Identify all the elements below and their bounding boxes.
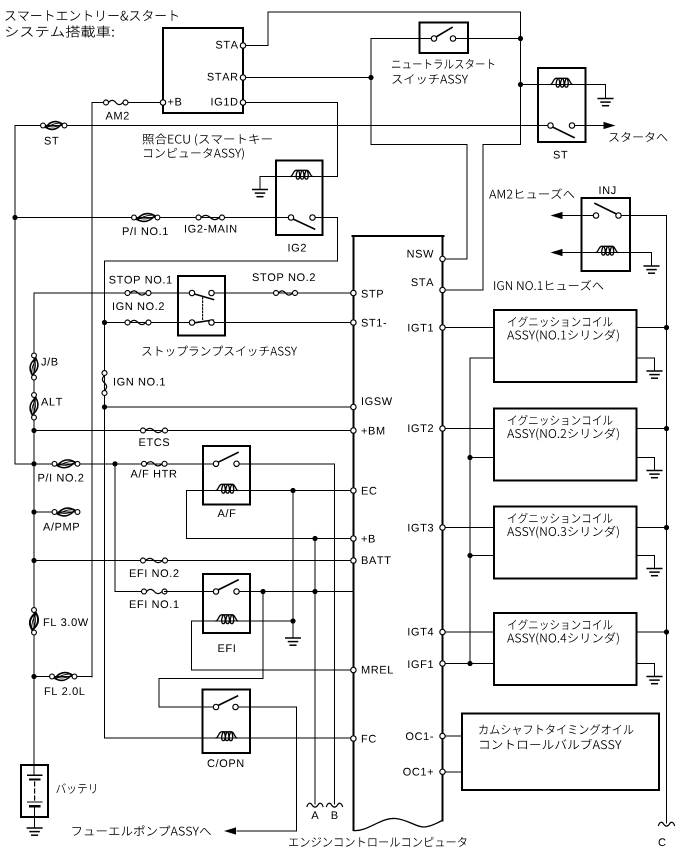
wire INJ coil left bbox=[562, 252, 596, 254]
relay ST blade bbox=[553, 127, 575, 138]
wire T2 to right bus bbox=[637, 428, 667, 430]
relay EFI box bbox=[203, 574, 250, 633]
fusible link ALT (vertical) bbox=[30, 393, 38, 420]
fuse IGN NO.2 bbox=[125, 320, 151, 325]
fuse A/F HTR bbox=[142, 461, 168, 466]
S2 blade bottom bbox=[195, 320, 214, 323]
wire OC1+ row bbox=[443, 771, 463, 773]
U2 terminal IGT1 bbox=[440, 325, 445, 330]
wire FL 2.0L row bbox=[34, 676, 92, 679]
junction IG bus / IGN NO.2 row bbox=[102, 320, 107, 325]
U2 terminal +BM bbox=[351, 428, 356, 433]
junction bus34 / FL 2.0L row bbox=[31, 674, 36, 679]
relay ST box bbox=[538, 68, 586, 142]
wire EFI output to C/OPN input bbox=[159, 592, 263, 708]
junction right bus / IGT1 bbox=[664, 325, 669, 330]
junction EFI output / C-OPN drop bbox=[260, 589, 265, 594]
wire IGT2 row bbox=[443, 428, 495, 430]
arrow to starter bbox=[604, 122, 616, 129]
battery plate + long bbox=[27, 774, 42, 776]
relay INJ coil bbox=[596, 246, 618, 255]
junction S1-right / STA riser bbox=[518, 36, 523, 41]
U2 pin label NSW bbox=[408, 250, 434, 258]
label IGN NO.2 bbox=[113, 302, 164, 310]
U2 terminal BATT bbox=[351, 558, 356, 563]
wire T1 lower-right to ground bbox=[637, 358, 655, 371]
U1 pin label +B bbox=[168, 98, 181, 106]
relay IG2 coil bbox=[291, 170, 313, 179]
wire EFI NO.1 fuse to relay bbox=[165, 591, 217, 593]
ignition coil assy T4 box bbox=[494, 613, 637, 685]
label ST (fuse) bbox=[45, 137, 59, 145]
label P/I NO.2 bbox=[38, 474, 83, 482]
U2 pin label FC bbox=[362, 735, 376, 743]
valve caption line 1 bbox=[479, 724, 633, 735]
label FL 3.0W bbox=[44, 618, 88, 626]
junction EC row / ground bus bbox=[290, 488, 295, 493]
U2 terminal IGT2 bbox=[440, 426, 445, 431]
arrow to fuel pump bbox=[224, 827, 236, 834]
wire battery feed bus x92 bbox=[91, 103, 93, 678]
relay C/OPN contact right bbox=[233, 704, 238, 709]
note: to AM2 fuse bbox=[489, 188, 574, 199]
ignition coil assy T2 box bbox=[494, 409, 637, 481]
wire IGT4 row bbox=[443, 631, 495, 633]
relay INJ contact right bbox=[616, 213, 621, 218]
wire EFI output row bbox=[237, 591, 354, 593]
U2 pin label +BM bbox=[362, 427, 385, 435]
S1 contact right bbox=[450, 36, 455, 41]
wire A/F coil right to EC bbox=[238, 490, 353, 492]
U2 terminal STP bbox=[351, 290, 356, 295]
U2 pin label IGF1 bbox=[408, 660, 433, 668]
wire bus to battery bbox=[33, 677, 35, 776]
U2 pin label MREL bbox=[362, 666, 393, 674]
S2 blade top bbox=[195, 294, 214, 300]
label STOP NO.1 bbox=[109, 276, 171, 284]
wire INJ switch right to right bus bbox=[619, 216, 667, 824]
U1 terminal IG1D bbox=[240, 100, 245, 105]
label ST (relay) bbox=[554, 151, 568, 159]
wire NSW-switch left riser bbox=[371, 39, 467, 259]
connector break B bbox=[327, 803, 343, 807]
S1 caption line 2 bbox=[392, 74, 468, 84]
U2 pin label IGT3 bbox=[408, 524, 433, 532]
label INJ bbox=[600, 186, 616, 194]
wire IGT1 row bbox=[443, 327, 495, 329]
T3 caption line 1 bbox=[508, 513, 612, 524]
wire ST relay coil feed bbox=[521, 84, 551, 86]
wire ST relay output bbox=[575, 125, 605, 127]
relay C/OPN blade bbox=[218, 696, 238, 706]
junction bus34 / A-PMP row bbox=[31, 509, 36, 514]
wire IGN NO.2 row right bbox=[212, 322, 354, 324]
wire STOP NO.1 row right bbox=[212, 292, 354, 294]
relay EFI contact left bbox=[213, 589, 218, 594]
wire IGF1 row bbox=[443, 663, 471, 665]
label EFI NO.2 bbox=[130, 569, 179, 577]
label IG2 bbox=[289, 244, 306, 252]
T4 caption line 2 bbox=[507, 632, 619, 644]
wire STOP NO.1 row bbox=[34, 292, 192, 294]
wire STAR net: U1 STAR to node bbox=[243, 77, 371, 79]
node label C bbox=[659, 838, 666, 846]
U2 pin label STP bbox=[362, 290, 384, 298]
relay IG2 contact right bbox=[310, 215, 315, 220]
S2 contact bottom-left bbox=[189, 320, 194, 325]
relay INJ blade bbox=[595, 204, 617, 215]
U2 terminal OC1+ bbox=[440, 769, 445, 774]
relay EFI coil bbox=[216, 615, 238, 624]
relay EFI blade bbox=[218, 580, 238, 590]
note: smart entry title line 2 bbox=[6, 25, 114, 37]
wire T1 lower-left bbox=[470, 357, 494, 359]
junction IGF bus / coil2 bbox=[467, 455, 472, 460]
ground (ignition coil T1) bbox=[647, 371, 662, 378]
relay C/OPN coil bbox=[216, 732, 237, 741]
relay IG2 blade bbox=[293, 219, 315, 229]
note: smart entry title line 1 bbox=[5, 10, 178, 21]
neutral start switch S1 box bbox=[420, 23, 469, 54]
wire +B feed from bus bbox=[92, 102, 106, 104]
wire INJ coil to ground bbox=[618, 253, 652, 267]
label A/F bbox=[218, 509, 236, 517]
label IG2-MAIN bbox=[185, 225, 236, 233]
fusible link FL 2.0L bbox=[50, 673, 77, 681]
U2 terminal IGF1 bbox=[440, 661, 445, 666]
U1 pin label IG1D bbox=[212, 98, 238, 106]
ground (INJ coil) bbox=[644, 266, 659, 273]
label ALT bbox=[41, 398, 62, 406]
stop lamp switch S2 box bbox=[178, 276, 225, 336]
wire P-I NO.2 / A-F HTR row bbox=[15, 463, 216, 465]
wire T2 lower-left bbox=[470, 457, 494, 459]
wire IG1D to IG2 coil bbox=[243, 103, 338, 177]
label IGN NO.1 bbox=[114, 378, 165, 386]
junction A-F HTR row / EFI NO.1 drop bbox=[112, 461, 117, 466]
S2 contact bottom-right bbox=[209, 320, 214, 325]
label FL 2.0L bbox=[45, 687, 85, 695]
wire OC1- row bbox=[443, 735, 463, 737]
note: to fuel pump assy bbox=[72, 825, 210, 836]
battery plate - short bbox=[30, 778, 39, 780]
relay A/F blade bbox=[218, 453, 238, 463]
fuse EFI NO.2 bbox=[141, 558, 168, 563]
wire T4 lower-right to ground bbox=[637, 664, 655, 677]
fuse AM2 bbox=[104, 100, 129, 105]
U2 terminal IGSW bbox=[351, 404, 356, 409]
ground (ignition coil T2) bbox=[647, 471, 662, 478]
wire A connector drop bbox=[314, 539, 316, 805]
junction bus34 / ETCS row bbox=[31, 428, 36, 433]
relay ST contact left bbox=[548, 123, 553, 128]
junction bus34 / P-I NO.2 row bbox=[31, 461, 36, 466]
label J/B bbox=[41, 358, 57, 366]
relay IG2 contact left bbox=[288, 215, 293, 220]
battery BT1 box bbox=[21, 765, 48, 817]
U2 pin label STA bbox=[411, 278, 433, 286]
wire T1 to right bus bbox=[637, 327, 667, 329]
U2 pin label +B bbox=[362, 535, 375, 543]
relay ST coil bbox=[551, 78, 573, 87]
label EFI bbox=[218, 644, 234, 652]
U1 terminal STA bbox=[240, 43, 245, 48]
U2 terminal NSW bbox=[440, 256, 445, 261]
T2 caption line 2 bbox=[507, 428, 619, 440]
fusible link P/I NO.1 bbox=[132, 214, 160, 222]
fusible link J/B (vertical) bbox=[30, 353, 38, 380]
wire battery negative to ground bbox=[34, 806, 36, 828]
U2 pin label IGT2 bbox=[408, 424, 433, 432]
junction IGF bus / IGF1 row bbox=[467, 661, 472, 666]
wire T3 lower-right to ground bbox=[637, 556, 655, 569]
wire EFI NO.1 feed drop bbox=[115, 464, 144, 592]
wire C/OPN output to fuel pump bbox=[236, 707, 297, 831]
junction STA riser / ST coil bbox=[518, 82, 523, 87]
U2 pin label IGT4 bbox=[408, 628, 433, 636]
label P/I NO.1 bbox=[123, 227, 168, 235]
U1 terminal STAR bbox=[240, 75, 245, 80]
ground (A/F & EFI relay coils) bbox=[286, 638, 300, 645]
junction EFI output / A drop bbox=[312, 589, 317, 594]
T1 caption line 1 bbox=[508, 316, 612, 327]
wire IG2 coil right bbox=[313, 176, 338, 178]
wire S1 right to STA riser bbox=[453, 38, 521, 40]
wire +B row to ECU bbox=[315, 538, 353, 540]
battery plate + long 2 bbox=[27, 801, 42, 803]
wire ST row to starter relay bbox=[15, 125, 551, 127]
S2 contact top-left bbox=[189, 290, 194, 295]
S2 caption bbox=[142, 346, 297, 357]
fuse STOP NO.1 bbox=[125, 291, 151, 296]
fusible link FL 3.0W (vertical) bbox=[30, 608, 38, 635]
relay INJ contact left bbox=[593, 213, 598, 218]
connector break A bbox=[307, 803, 323, 807]
junction right bus / IGT3 bbox=[664, 525, 669, 530]
T2 caption line 1 bbox=[508, 415, 612, 426]
junction ground bus / EFI coil bbox=[290, 618, 295, 623]
battery internal link (dashed) bbox=[34, 782, 36, 800]
U2 terminal ST1- bbox=[351, 320, 356, 325]
U2 terminal STA bbox=[440, 287, 445, 292]
relay A/F contact right bbox=[234, 461, 239, 466]
S1 caption line 1 bbox=[392, 59, 494, 69]
fuse IGN NO.1 (vertical) bbox=[102, 371, 107, 396]
junction bus34 / EFI NO.2 row bbox=[31, 558, 36, 563]
wire ST fuse row bbox=[14, 126, 16, 464]
wire IGF feedback bus bbox=[469, 358, 471, 664]
fusible link P/I NO.2 bbox=[52, 460, 80, 468]
camshaft timing oil control valve box bbox=[462, 714, 659, 791]
wire IG2 coil left to ground bbox=[260, 177, 291, 190]
U2 pin label BATT bbox=[362, 556, 391, 564]
label ETCS bbox=[139, 438, 169, 446]
ground (ignition coil T4) bbox=[647, 677, 662, 684]
relay A/F box bbox=[203, 446, 250, 505]
arrow to IGN NO.1 fuse bbox=[551, 249, 563, 256]
U1 caption line 2 bbox=[144, 148, 244, 160]
relay INJ box bbox=[582, 198, 631, 271]
U2 terminal OC1- bbox=[440, 733, 445, 738]
junction IGF bus / coil3 bbox=[467, 553, 472, 558]
junction right bus / IGT2 bbox=[664, 426, 669, 431]
wire EFI NO.2 BATT row bbox=[34, 560, 353, 562]
U2 pin label IGT1 bbox=[408, 324, 433, 332]
U2 pin label ST1- bbox=[362, 319, 387, 327]
U1 pin label STAR bbox=[207, 73, 237, 81]
battery plate - short 2 bbox=[30, 805, 39, 807]
S1 blade bbox=[436, 28, 452, 38]
ground (battery) bbox=[27, 828, 42, 835]
fusible link A/PMP bbox=[52, 508, 80, 516]
fuse EFI NO.1 bbox=[142, 589, 168, 594]
engine control computer U2 box (wavy bottom) bbox=[352, 236, 443, 831]
wire left power bus x34 bbox=[33, 293, 35, 765]
label AM2 bbox=[106, 112, 129, 120]
wire IGT3 row bbox=[443, 527, 495, 529]
fuse IG2-MAIN bbox=[196, 215, 225, 220]
wire A/F coil left loop to +B row bbox=[187, 491, 316, 539]
wire A/F output to B drop bbox=[237, 464, 335, 804]
wire relay ground bus bbox=[292, 491, 294, 639]
junction right bus / IGT4 bbox=[664, 629, 669, 634]
wire IG2 output to IG bus bbox=[105, 218, 338, 739]
U2 terminal +B bbox=[351, 536, 356, 541]
wire IGN NO.2 row bbox=[105, 322, 193, 324]
wire T4 to right bus bbox=[637, 631, 667, 633]
label C/OPN bbox=[208, 759, 244, 767]
label STOP NO.2 bbox=[253, 273, 315, 281]
S1 contact left bbox=[431, 36, 436, 41]
note: to IGN NO.1 fuse bbox=[494, 280, 603, 291]
wire T3 to right bus bbox=[637, 527, 667, 529]
relay IG2 box bbox=[276, 161, 323, 236]
wire EFI coil right to ground bus bbox=[238, 620, 293, 622]
junction STAR/NSW node bbox=[368, 75, 373, 80]
node label A bbox=[311, 811, 318, 819]
T1 caption line 2 bbox=[507, 329, 619, 341]
relay C/OPN box bbox=[203, 690, 251, 754]
junction IG bus / IGSW row bbox=[102, 404, 107, 409]
relay EFI contact right bbox=[234, 589, 239, 594]
U2 pin label EC bbox=[362, 487, 377, 495]
ground (ST relay coil) bbox=[598, 99, 613, 106]
wire STA net: U1 STA to top rail bbox=[243, 12, 521, 290]
junction left bus / P-I NO.1 row bbox=[12, 215, 17, 220]
wire P-I NO.1 row bbox=[15, 217, 291, 219]
valve caption line 2 bbox=[480, 739, 621, 750]
U2 terminal IGT4 bbox=[440, 629, 445, 634]
wire EFI coil left to MREL bbox=[192, 621, 354, 670]
wire ST coil to ground bbox=[573, 85, 606, 99]
fuse ETCS bbox=[141, 428, 168, 433]
label EFI NO.1 bbox=[130, 600, 179, 608]
wire +BM ETCS row bbox=[34, 430, 353, 432]
T3 caption line 2 bbox=[507, 526, 619, 538]
junction +B row / A drop bbox=[312, 536, 317, 541]
U2 terminal IGT3 bbox=[440, 525, 445, 530]
note: to starter bbox=[609, 132, 667, 142]
relay A/F coil bbox=[216, 484, 238, 493]
U2 pin label OC1- bbox=[406, 732, 433, 740]
relay C/OPN contact left bbox=[213, 704, 218, 709]
wire C/OPN coil to FC bbox=[237, 737, 353, 739]
ground (IG2 coil) bbox=[253, 190, 267, 197]
verification ECU U1 (smart key computer assy) box bbox=[163, 28, 243, 113]
label A/PMP bbox=[43, 523, 79, 531]
U2 pin label OC1+ bbox=[403, 768, 433, 776]
U2 terminal MREL bbox=[351, 667, 356, 672]
wire T4 lower-left bbox=[470, 663, 494, 665]
ignition coil assy T3 box bbox=[494, 507, 637, 579]
wire IG bus to C/OPN coil bbox=[105, 737, 217, 739]
ignition coil assy T1 box bbox=[494, 310, 637, 382]
U2 pin label IGSW bbox=[362, 397, 392, 405]
node label B bbox=[332, 811, 338, 819]
fuse STOP NO.2 bbox=[274, 291, 298, 296]
wire A-PMP row bbox=[34, 511, 78, 513]
wire IGSW row bbox=[105, 406, 354, 408]
label A/F HTR bbox=[131, 470, 177, 478]
T4 caption line 1 bbox=[508, 619, 612, 630]
relay A/F contact left bbox=[213, 461, 218, 466]
U1 terminal +B bbox=[160, 100, 165, 105]
S2 contact top-right bbox=[209, 290, 214, 295]
label battery bbox=[56, 783, 96, 794]
ground (ignition coil T3) bbox=[647, 569, 662, 576]
U2 caption bbox=[289, 837, 466, 847]
S2 mechanical link (dashed) bbox=[202, 298, 204, 321]
fusible link ST bbox=[41, 122, 67, 130]
arrow to AM2 fuse bbox=[551, 212, 563, 219]
wire T3 lower-left bbox=[470, 555, 494, 557]
U2 terminal FC bbox=[351, 736, 356, 741]
U1 pin label STA bbox=[216, 41, 238, 49]
connector break C bbox=[659, 822, 675, 826]
U1 caption line 1 bbox=[143, 134, 272, 146]
relay ST contact right bbox=[569, 123, 574, 128]
wire T2 lower-right to ground bbox=[637, 458, 655, 471]
U2 terminal EC bbox=[351, 488, 356, 493]
wire AM2 fuse to +B bbox=[126, 102, 164, 104]
wire INJ switch left bbox=[562, 215, 596, 217]
